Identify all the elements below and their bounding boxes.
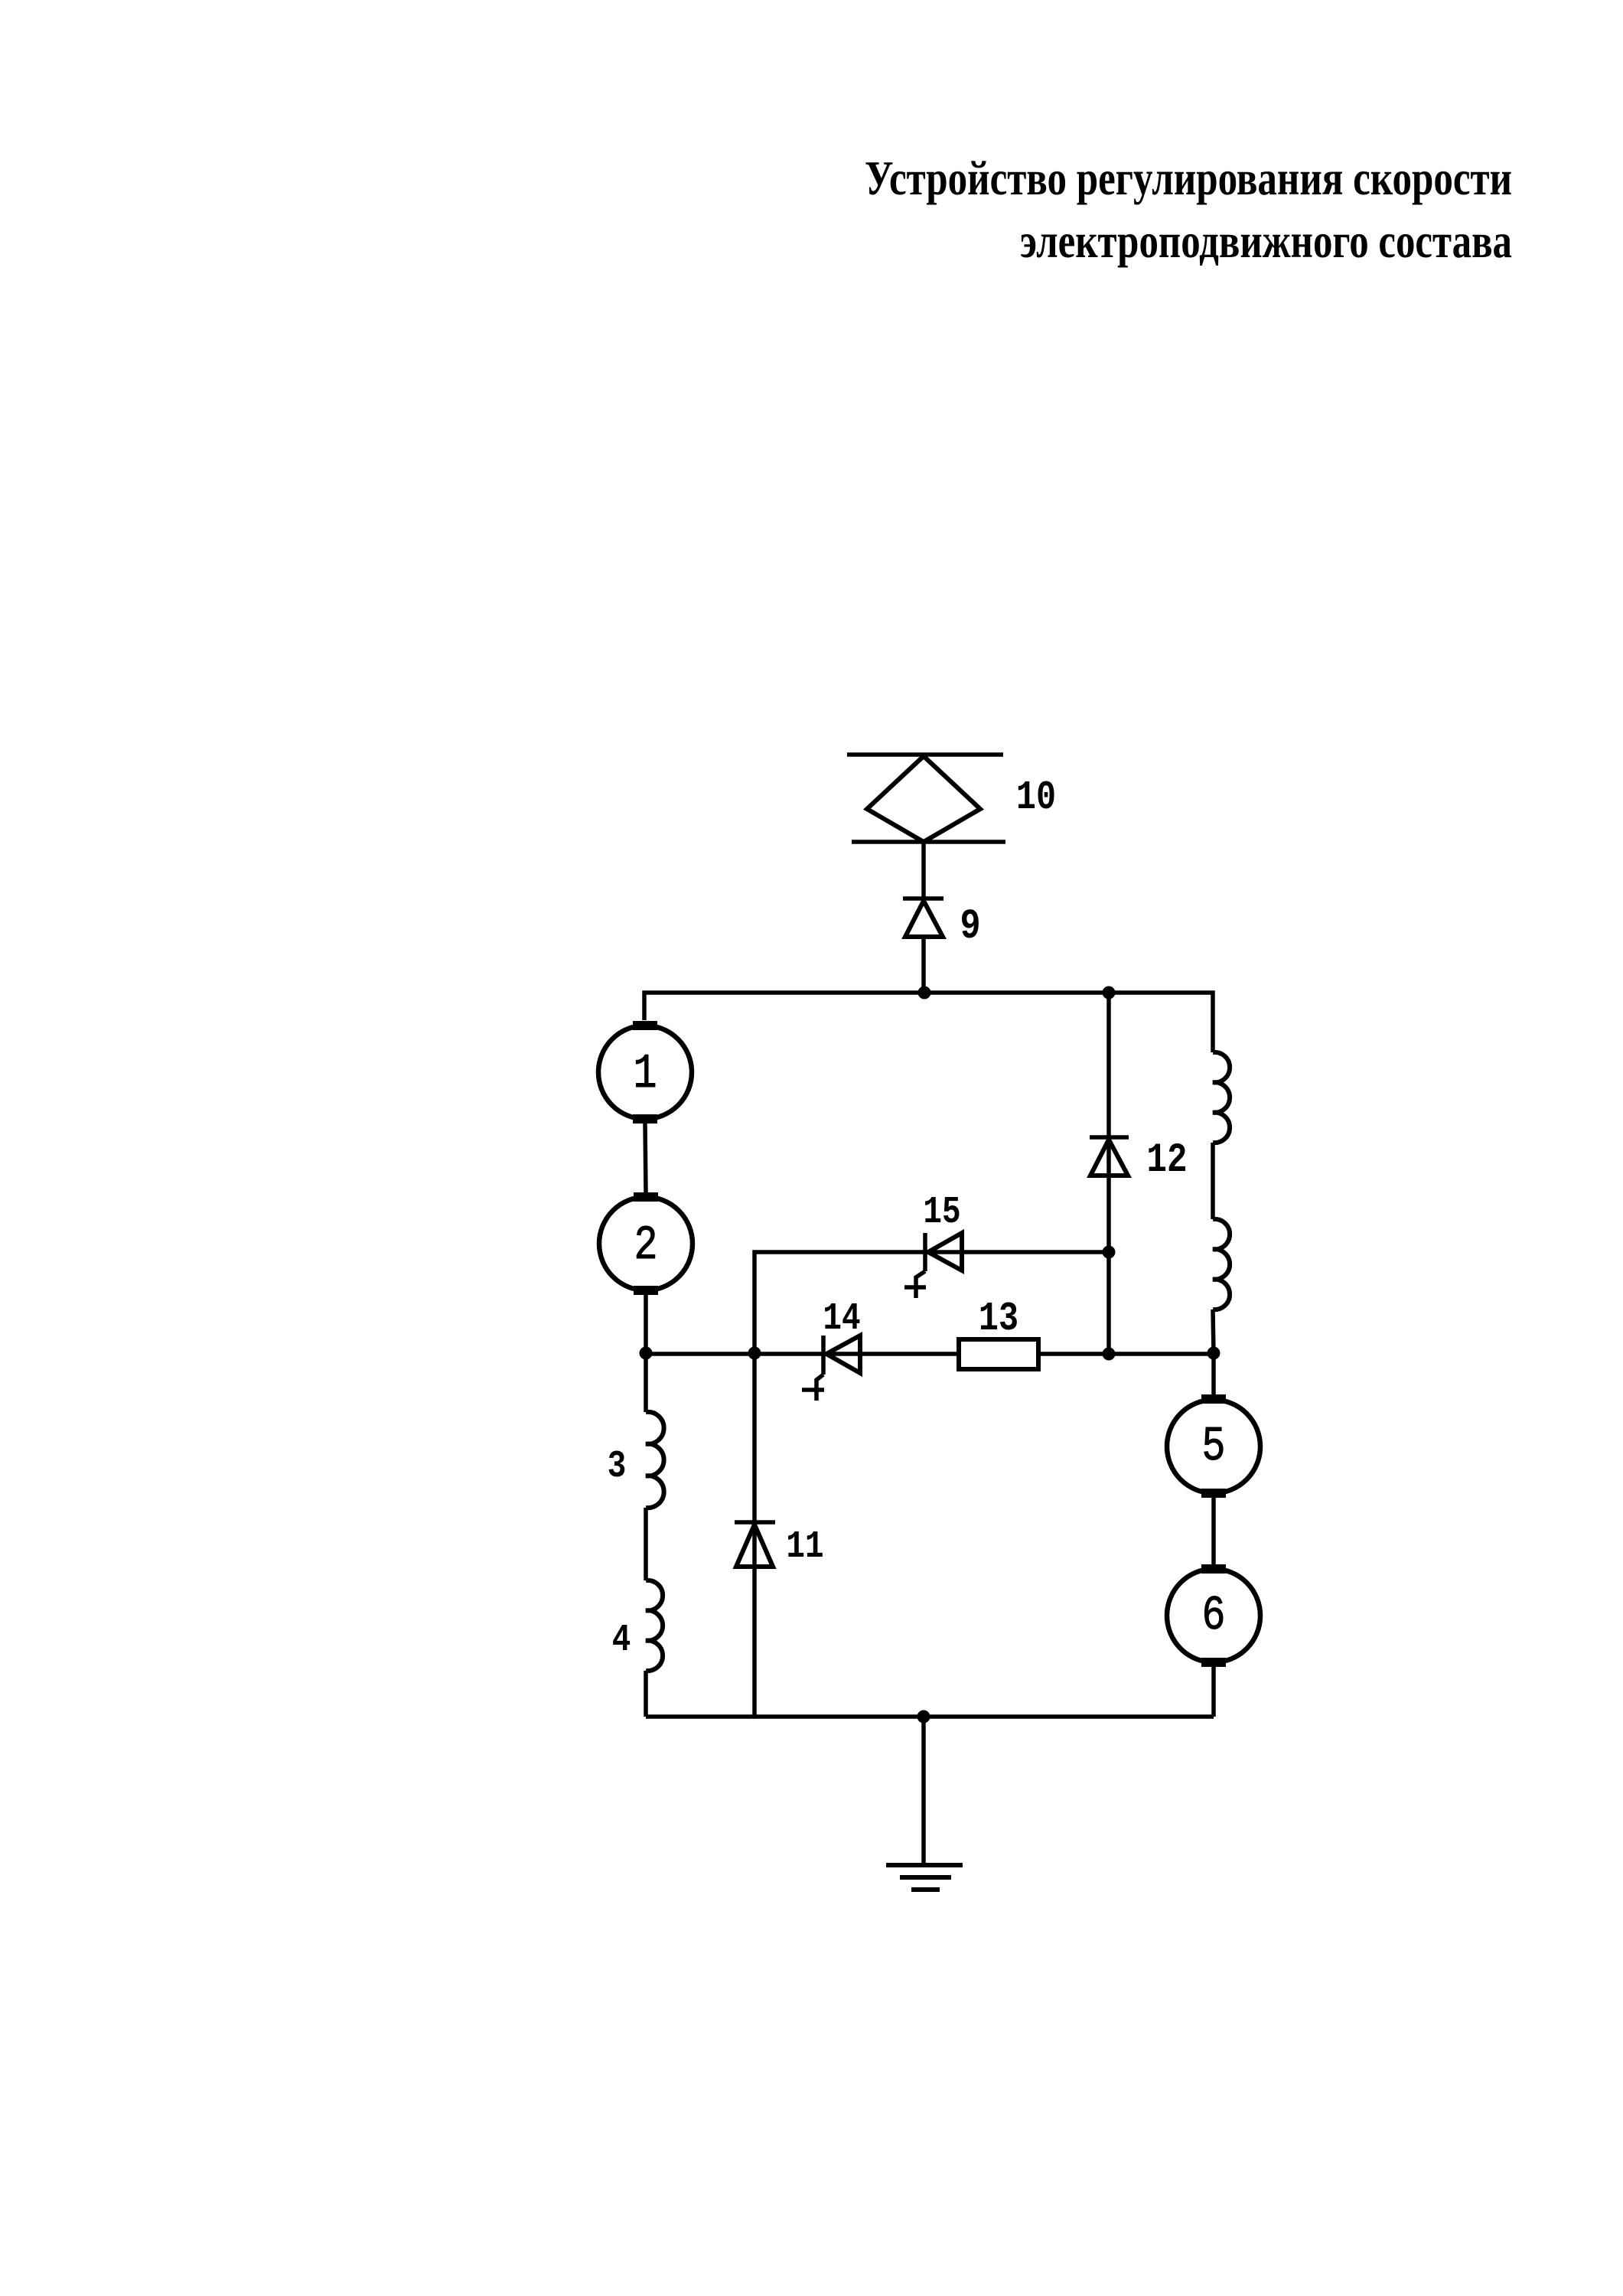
wire diode 11 branch <box>752 1353 757 1717</box>
diode 12 <box>1090 1137 1129 1176</box>
wire coil 4 to bottom bus <box>644 1671 648 1717</box>
thyristor 15 <box>904 1233 962 1298</box>
resistor 13 <box>959 1339 1038 1369</box>
wire coil to node D <box>1213 1309 1214 1353</box>
svg-text:15: 15 <box>923 1190 960 1234</box>
motor 6 <box>1167 1564 1260 1667</box>
svg-text:электроподвижного состава: электроподвижного состава <box>1020 214 1512 268</box>
node top bus / diode 12 branch <box>1103 987 1116 1000</box>
inductor 7 (right upper coil) <box>1213 1052 1230 1143</box>
svg-text:10: 10 <box>1016 775 1056 820</box>
svg-text:6: 6 <box>1202 1590 1226 1644</box>
wire between coil 3 and coil 4 <box>644 1508 648 1580</box>
motor 2 <box>599 1192 693 1295</box>
wire motor 5 to motor 6 <box>1211 1498 1216 1564</box>
svg-text:14: 14 <box>823 1296 860 1340</box>
wire motor 2 to node A <box>644 1295 648 1354</box>
thyristor 14 <box>802 1336 860 1401</box>
svg-text:5: 5 <box>1202 1420 1226 1475</box>
svg-text:2: 2 <box>634 1219 658 1274</box>
wire diode 12 branch <box>1106 993 1111 1354</box>
inductor 4 <box>646 1580 663 1671</box>
wire bottom bus <box>646 1714 1214 1719</box>
node A (motor 2 bottom) <box>640 1347 653 1360</box>
pantograph 10 <box>847 755 1005 842</box>
diode 9 <box>903 899 943 937</box>
node E (15 wire / diode 12) <box>1103 1246 1116 1259</box>
node top bus / diode 9 <box>918 987 931 1000</box>
svg-text:12: 12 <box>1146 1137 1187 1183</box>
wire motor 6 to bottom bus <box>1211 1667 1216 1717</box>
node C (resistor right / diode 12 bottom) <box>1103 1348 1116 1361</box>
svg-text:Устройство регулирования скоро: Устройство регулирования скорости <box>865 151 1512 205</box>
ground <box>886 1865 963 1890</box>
wire left lower branch top <box>644 1353 648 1412</box>
inductor 3 <box>646 1412 664 1508</box>
wire node D to motor 5 <box>1211 1353 1216 1399</box>
wire pantograph to diode 9 <box>921 842 926 897</box>
inductor 8 (right lower coil) <box>1213 1219 1230 1309</box>
node ground <box>917 1711 930 1724</box>
wire motor 1 to motor 2 <box>645 1124 646 1192</box>
svg-text:11: 11 <box>786 1525 823 1568</box>
node D (right branch) <box>1207 1347 1221 1360</box>
svg-text:13: 13 <box>979 1296 1018 1342</box>
wire thyristor 15 loop <box>754 1252 1109 1353</box>
wire ground stem <box>921 1717 926 1865</box>
svg-text:4: 4 <box>612 1618 631 1662</box>
svg-text:3: 3 <box>608 1444 627 1488</box>
svg-text:1: 1 <box>634 1048 657 1102</box>
wire top bus <box>644 993 1213 1052</box>
svg-text:9: 9 <box>960 903 980 951</box>
diode 11 <box>735 1522 775 1567</box>
wire between right coils <box>1211 1143 1215 1219</box>
node B (diode 11 top) <box>748 1347 761 1360</box>
wire resistor 13 right to right branch <box>1038 1352 1214 1356</box>
wire diode 9 to top bus <box>921 937 926 993</box>
motor 5 <box>1167 1394 1260 1498</box>
motor 1 <box>598 1021 692 1124</box>
wire main horizontal (node A to resistor 13 left) <box>646 1352 959 1356</box>
